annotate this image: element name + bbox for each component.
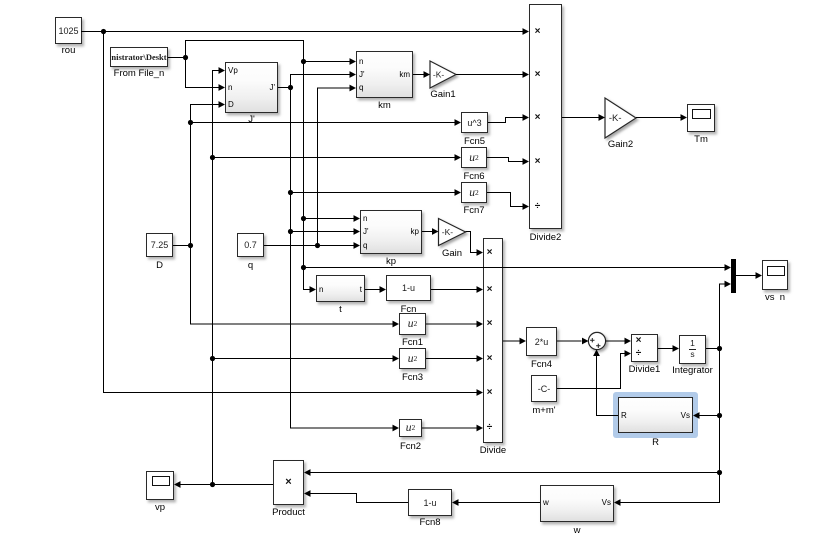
- svg-text:-K-: -K-: [609, 113, 622, 124]
- svg-text:-K-: -K-: [442, 227, 454, 237]
- svg-text:-K-: -K-: [433, 69, 445, 79]
